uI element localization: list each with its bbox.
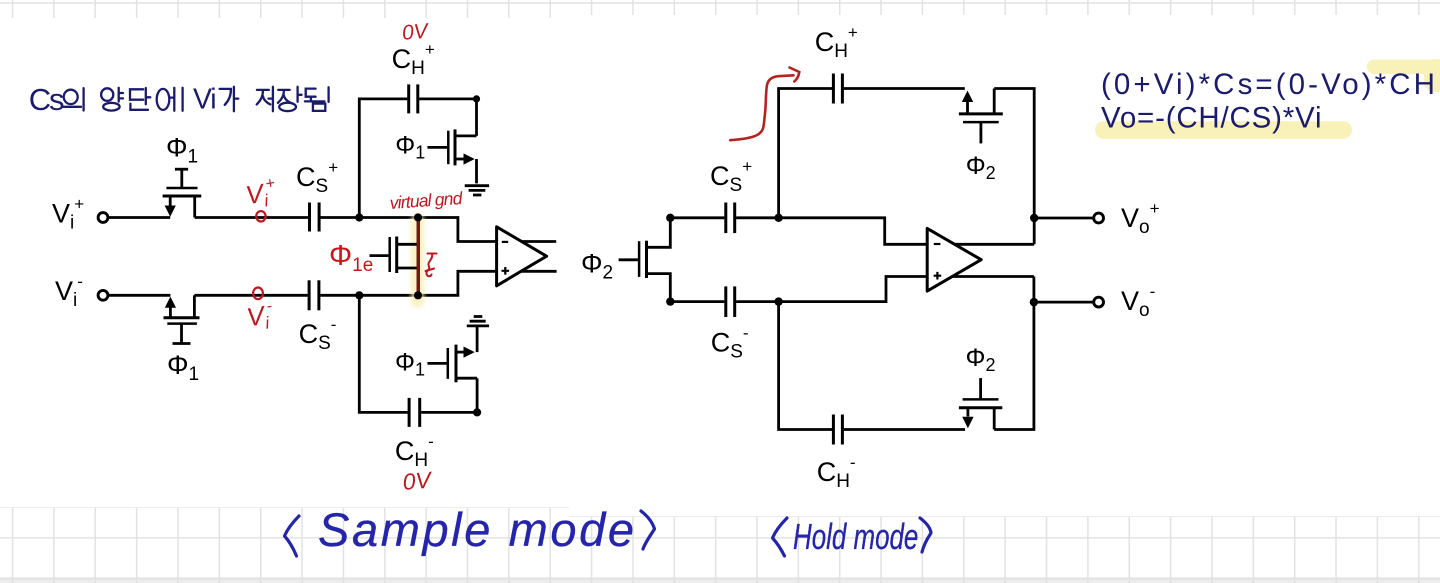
svg-text:0V: 0V [401,466,434,495]
capacitor Cs+ [310,203,320,232]
wire CH+ right plate to node C [419,99,476,136]
svg-text:CH+: CH+ [392,40,435,79]
svg-text:Φ2: Φ2 [966,344,996,375]
M1 source arrow [165,206,176,217]
wire virtual ground node (vertical) [417,218,420,296]
wire M8 to output node [994,277,1034,430]
wire Vi+ input to switch M1 [108,216,170,219]
wire hold bottom rail right to op-amp plus input [736,277,927,302]
hangul syllable jeo [257,87,273,111]
node I junction dot (Cs- right) [774,297,782,305]
svg-text:CS-: CS- [711,324,749,363]
yellow highlight fragment right edge [1424,59,1440,92]
node H junction dot (Cs+ right) [774,214,782,222]
wire M7 to output node [994,89,1034,245]
yellow highlight on virtual ground node [411,214,424,308]
svg-text:Φ2: Φ2 [966,152,996,183]
node C junction dot (CH+ right) [473,95,480,102]
svg-text:Cs: Cs [29,82,64,117]
svg-text:Vi-: Vi- [55,272,83,311]
node F junction dot (Cs+ left) [666,214,674,222]
svg-text:Φ1e: Φ1e [329,240,373,276]
wire hold top rail right to op-amp minus input [736,218,927,245]
capacitor Cs- [309,280,319,310]
capacitor CH- (hold) [833,415,842,445]
wire output Vo- [1034,301,1094,304]
capacitor CH+ (sample) [409,84,418,113]
capacitor Cs+ (hold) [726,203,735,234]
capacitor Cs- (hold) [726,286,735,317]
svg-text:Vo-: Vo- [1121,282,1155,321]
transistor M3 (phi1 to ground, top) [427,129,476,183]
wire hold node F up to CH+ feedback [779,89,832,218]
transistor M4 (phi1 to ground, bottom) [427,327,477,382]
wire hold node G down to CH- feedback [779,302,832,430]
op-amp U2 [927,228,981,291]
svg-text:(0+Vi)*Cs=(0-Vo)*CH: (0+Vi)*Cs=(0-Vo)*CH [1101,68,1438,101]
svg-text:virtual gnd: virtual gnd [389,188,464,213]
node Vo- junction dot [1030,298,1038,306]
wire switch M2 to Cs- [194,294,307,297]
svg-text:CS+: CS+ [296,158,338,197]
wire output Vo+ [1034,217,1093,220]
node A junction dot [355,213,363,221]
svg-text:Vi-: Vi- [244,298,275,336]
wire CH- right plate to node E [421,378,477,412]
ground (bottom, inverted) [467,317,489,326]
hangul syllable dan [130,88,150,110]
svg-text:Φ1: Φ1 [167,350,199,385]
wire op-amp output - [515,270,557,273]
bracket left (hold) [773,518,788,556]
bracket left (sample) [285,516,300,556]
M7 source arrow (up) [962,91,973,102]
red node mark (bottom rail) [253,288,263,300]
svg-text:Φ1: Φ1 [166,133,198,168]
transistor M8 (phi2 feedback switch, bottom) [959,378,1002,429]
wire Cs- to node and op-amp non-inverting input [320,271,496,295]
wire op-amp output + [515,240,556,243]
terminal Vo+ [1094,213,1104,223]
yellow highlight fragment top right [1367,60,1440,75]
M4 drain arrow [464,347,475,358]
yellow highlight under formula line 2 [1095,121,1352,138]
svg-text:Φ2: Φ2 [581,249,613,284]
op-amp U1 [497,227,547,286]
terminal Vo- [1094,297,1104,307]
svg-text:Vo+: Vo+ [1121,199,1160,238]
hangul syllable doem [305,87,329,111]
transistor M5 (phi1e, between rails) [370,237,419,274]
U2 plus sign [934,272,942,280]
node Vo+ junction dot [1030,214,1038,222]
svg-text:Vi+: Vi+ [243,175,278,213]
wire op-amp output - [952,275,1034,278]
U1 minus sign [502,241,508,243]
handwritten caption: Hold mode (blue) [773,518,932,556]
transistor M7 (phi2 feedback switch, top) [959,89,1003,144]
U2 minus sign [934,243,941,245]
transistor M1 (phi1 switch, Vi+ rail) [163,169,202,217]
svg-text:Vi: Vi [193,84,215,116]
hangul syllable ga [220,87,239,111]
hangul syllable jang [278,87,302,103]
node G junction dot (Cs- left) [666,297,674,305]
U1 plus sign [502,267,510,275]
svg-text:Vo=-(CH/CS)*Vi: Vo=-(CH/CS)*Vi [1101,102,1322,135]
svg-text:CH-: CH- [817,453,856,492]
hangul syllable e [157,89,170,110]
svg-text:Vi+: Vi+ [52,194,84,233]
wire hold top rail left [670,216,724,219]
wire CH+ to M7 [844,87,965,90]
svg-text:0V: 0V [401,20,431,45]
wire Vi- input to switch M2 [108,294,170,297]
wire node A up to CH+ [359,99,407,218]
svg-text:CH-: CH- [395,432,434,471]
ground (top) [465,186,489,195]
svg-text:Φ1: Φ1 [395,132,425,163]
bracket right (hold) [920,518,931,552]
wire switch M1 to Cs+ [195,216,308,219]
hangul syllable ui [64,90,78,104]
M2 source arrow [165,297,176,308]
terminal Vi- [98,290,108,300]
red squiggle annotation [426,254,437,277]
svg-text:CH+: CH+ [815,23,858,62]
wire CH- to M8 [844,428,965,431]
M3 source arrow [464,153,475,164]
node B2 junction dot (virtual gnd bottom) [414,291,422,299]
svg-text:CS-: CS- [299,315,337,354]
svg-text:Hold mode: Hold mode [793,517,918,557]
hangul syllable yang [101,88,113,101]
terminal Vi+ [98,213,108,223]
red annotation line over node [417,220,420,297]
wire op-amp output + [954,243,1034,246]
handwritten caption: Sample mode (blue) [285,511,655,556]
capacitor CH+ (hold) [833,74,842,104]
transistor M2 (phi1 switch, Vi- rail) [164,295,200,343]
svg-text:Φ1: Φ1 [395,349,425,380]
wire Cs+ to virtual-ground node and op-amp inverting input [321,218,497,242]
wire hold bottom rail left [670,300,724,303]
svg-text:Sample mode: Sample mode [318,503,637,556]
svg-text:CS+: CS+ [710,157,752,196]
red arrow annotation (charge transfer) [730,68,799,141]
bracket right (sample) [641,511,655,549]
node D junction dot (Cs- right) [355,291,363,299]
M8 source arrow (down) [962,417,973,428]
transistor M6 (phi2 input short switch) [619,218,671,302]
node E junction dot (CH- right) [473,408,481,416]
red node mark (top rail) [256,211,265,221]
node B junction dot (virtual gnd top) [414,213,422,221]
wire node D down to CH- [359,295,407,412]
capacitor CH- (sample) [409,398,420,427]
